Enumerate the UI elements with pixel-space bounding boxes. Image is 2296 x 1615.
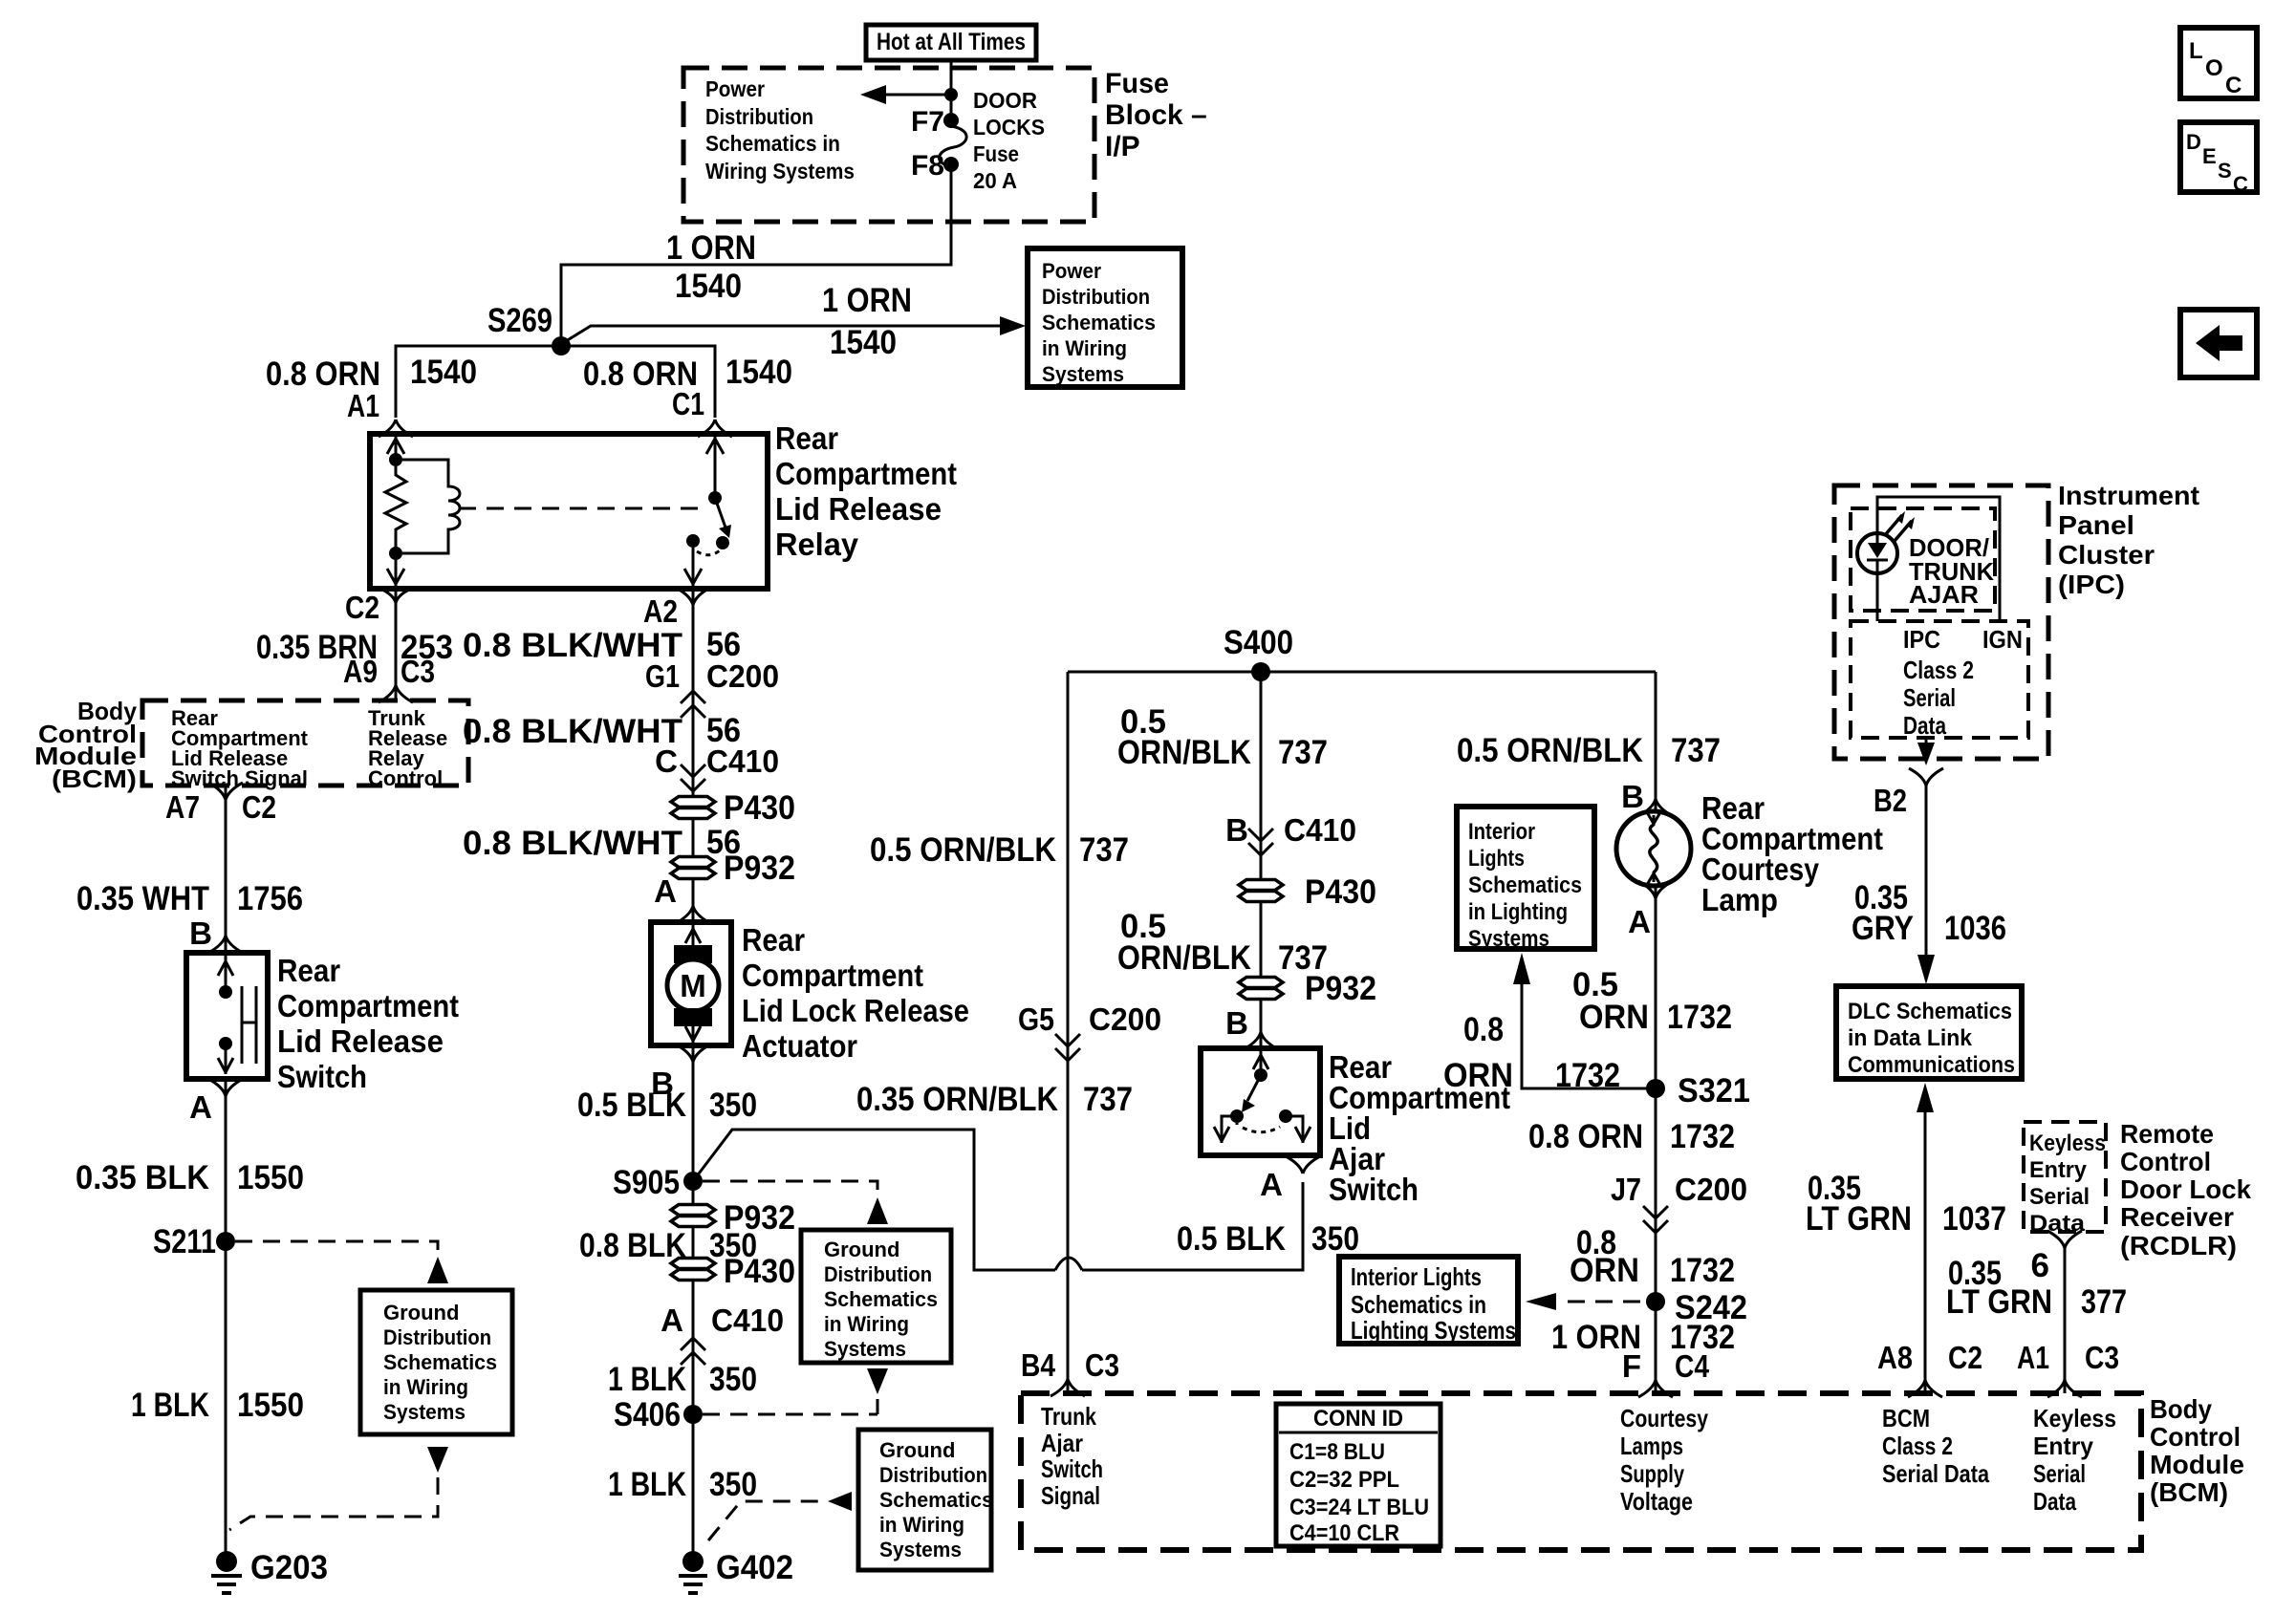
svg-text:0.5 ORN/BLK: 0.5 ORN/BLK <box>870 831 1056 869</box>
connector fork B (ajar switch) <box>1244 1032 1278 1049</box>
labels 0.5 ORN/BLK 737 (center lower) <box>1117 908 1328 977</box>
svg-text:0.8 BLK/WHT: 0.8 BLK/WHT <box>463 713 682 750</box>
svg-text:Serial: Serial <box>2033 1459 2086 1488</box>
svg-text:G5: G5 <box>1018 1001 1054 1037</box>
labels A7 C2 0.35 WHT 1756 B <box>76 789 303 951</box>
svg-text:C2=32 PPL: C2=32 PPL <box>1289 1467 1399 1493</box>
wire S400 down center branch to ajar switch <box>1260 672 1263 1048</box>
svg-text:P430: P430 <box>1305 873 1376 911</box>
svg-text:Power: Power <box>705 76 765 101</box>
svg-text:C410: C410 <box>1284 812 1356 848</box>
labels 0.35 LT GRN 1037 <box>1806 1170 2006 1238</box>
relay coil lower dot and pin C2 <box>387 547 404 586</box>
connector fork A1|C3 <box>2047 1380 2082 1397</box>
door/trunk ajar dashed box <box>1851 508 1995 611</box>
svg-text:Schematics in: Schematics in <box>705 131 840 156</box>
svg-text:P932: P932 <box>724 850 795 887</box>
interior lights schematics box (upper) <box>1457 807 1594 952</box>
BCM upper label <box>34 697 138 793</box>
rear compartment lid release switch box <box>186 953 459 1094</box>
wire BCM A7 to lid release switch B <box>225 786 227 953</box>
svg-text:Ground: Ground <box>383 1301 459 1324</box>
svg-text:A: A <box>189 1089 212 1125</box>
dashed wire G402 to ground distribution box <box>708 1492 852 1540</box>
labels 0.5 ORN/BLK 737 (center) <box>1117 703 1328 771</box>
labels A2 0.8 BLK/WHT 56 G1 C200 <box>463 593 779 694</box>
wire S269 branch arrow to power distribution box <box>566 316 1026 341</box>
labels 1 ORN 1732 F C4 <box>1551 1319 1735 1384</box>
svg-text:Receiver: Receiver <box>2120 1202 2234 1232</box>
wire S905 to lid ajar switch A (0.5 BLK 350) <box>693 1130 1303 1270</box>
svg-text:in Wiring: in Wiring <box>879 1513 964 1537</box>
svg-text:0.35 ORN/BLK: 0.35 ORN/BLK <box>856 1081 1058 1118</box>
svg-text:Courtesy: Courtesy <box>1620 1404 1708 1432</box>
svg-text:Lighting Systems: Lighting Systems <box>1351 1316 1516 1345</box>
wire lamp A to BCM F <box>1655 886 1657 1393</box>
svg-text:C: C <box>655 743 678 779</box>
svg-text:F: F <box>1622 1348 1641 1384</box>
svg-text:A: A <box>661 1303 683 1338</box>
svg-text:AJAR: AJAR <box>1909 580 1979 609</box>
svg-text:A7: A7 <box>165 789 200 825</box>
svg-text:ORN: ORN <box>1570 1252 1639 1289</box>
keyless entry serial data dashed box <box>2024 1122 2106 1237</box>
svg-text:Switch: Switch <box>277 1059 367 1094</box>
svg-text:1540: 1540 <box>675 268 742 305</box>
svg-text:Lid Release: Lid Release <box>277 1023 444 1059</box>
connector C410 double chevron (down) <box>1248 829 1273 855</box>
labels 0.8 BLK/WHT 56 C C410 <box>463 712 779 779</box>
svg-text:P430: P430 <box>724 789 795 827</box>
ground distribution schematics box (lower) <box>858 1430 993 1570</box>
svg-text:Signal: Signal <box>1041 1481 1100 1510</box>
svg-text:0.35 WHT: 0.35 WHT <box>76 880 209 917</box>
svg-text:E: E <box>2202 144 2217 168</box>
svg-text:Hot at All Times: Hot at All Times <box>877 29 1026 55</box>
switch internals <box>218 956 256 1074</box>
svg-text:(BCM): (BCM) <box>2150 1477 2228 1507</box>
svg-text:B: B <box>1621 779 1644 814</box>
svg-text:Actuator: Actuator <box>742 1028 857 1064</box>
connector fork C1 <box>698 420 732 437</box>
svg-text:B4: B4 <box>1021 1347 1056 1383</box>
svg-text:Systems: Systems <box>383 1400 466 1424</box>
labels A C410 <box>661 1303 784 1338</box>
svg-text:C3=24 LT BLU: C3=24 LT BLU <box>1289 1495 1429 1520</box>
svg-text:LT GRN: LT GRN <box>1806 1200 1912 1238</box>
svg-text:20 A: 20 A <box>973 168 1017 193</box>
labels 0.8 ORN 1732 (to interior lights) <box>1443 1011 1620 1094</box>
dashed wire S211 to ground distribution box <box>235 1241 448 1283</box>
svg-text:Relay: Relay <box>775 527 859 562</box>
wire S400 down left branch (trunk ajar switch signal) <box>1067 672 1070 1393</box>
svg-text:in Data Link: in Data Link <box>1848 1025 1973 1051</box>
rear compartment lid release relay box <box>370 420 957 589</box>
connector C200 double chevron <box>681 691 705 718</box>
svg-text:Door Lock: Door Lock <box>2120 1174 2251 1204</box>
svg-text:Communications: Communications <box>1848 1052 2015 1078</box>
connector fork B4|C3 <box>1051 1379 1085 1396</box>
relay coil <box>402 460 460 553</box>
svg-text:C3: C3 <box>401 654 435 689</box>
svg-text:Systems: Systems <box>824 1337 906 1361</box>
svg-text:0.5 ORN/BLK: 0.5 ORN/BLK <box>1457 732 1643 769</box>
svg-text:in Wiring: in Wiring <box>1042 336 1127 360</box>
svg-text:1 BLK: 1 BLK <box>131 1387 209 1424</box>
svg-text:Switch: Switch <box>1041 1454 1103 1483</box>
svg-text:C4: C4 <box>1675 1348 1710 1384</box>
svg-text:Lamp: Lamp <box>1701 882 1778 917</box>
svg-text:(IPC): (IPC) <box>2058 570 2125 599</box>
labels A 0.5 BLK 350 <box>1177 1167 1359 1258</box>
fuse block label <box>1105 68 1207 162</box>
splice S400 and bus wire <box>1068 624 1656 681</box>
connector fork B (lamp) <box>1638 799 1673 816</box>
wire switch A to G203 <box>225 1079 227 1556</box>
svg-text:Ajar: Ajar <box>1041 1429 1083 1457</box>
CONN ID table <box>1276 1404 1440 1546</box>
svg-text:L: L <box>2189 38 2203 64</box>
splice S406 <box>614 1396 703 1433</box>
svg-text:DLC Schematics: DLC Schematics <box>1848 999 2012 1024</box>
svg-text:LT GRN: LT GRN <box>1946 1283 2052 1321</box>
svg-text:Systems: Systems <box>1468 926 1549 952</box>
connector fork below keyless box <box>2047 1231 2082 1248</box>
connector C200 double chevron (down right) <box>1643 1206 1668 1233</box>
labels 0.5 ORN 1732 <box>1572 966 1732 1036</box>
svg-text:B: B <box>189 915 212 951</box>
svg-text:0.8 BLK: 0.8 BLK <box>579 1227 686 1264</box>
wire S269 to A1 and C1 <box>396 346 715 418</box>
svg-text:0.35 BLK: 0.35 BLK <box>76 1159 209 1196</box>
svg-text:0.5 BLK: 0.5 BLK <box>1177 1220 1286 1258</box>
svg-text:1540: 1540 <box>410 354 477 391</box>
svg-text:Trunk: Trunk <box>1041 1402 1096 1431</box>
svg-text:737: 737 <box>1079 831 1129 869</box>
connector fork A8|C2 <box>1908 1380 1942 1397</box>
labels 0.5 ORN/BLK 737 B (lamp) <box>1457 732 1721 814</box>
connector C200 double chevron (down) <box>1055 1034 1080 1061</box>
svg-text:S406: S406 <box>614 1396 681 1433</box>
actuator motor symbol <box>667 925 719 1043</box>
connector fork A (lamp) <box>1638 881 1673 898</box>
labels 0.8 BLK/WHT 56 <box>463 824 741 862</box>
svg-text:Schematics: Schematics <box>824 1287 938 1311</box>
svg-text:Ground: Ground <box>879 1438 955 1462</box>
svg-text:Ground: Ground <box>824 1238 899 1261</box>
body control module (BCM) dashed box <box>1021 1393 2141 1550</box>
svg-text:C2: C2 <box>345 590 379 625</box>
label 1 ORN 1540 (fuse to S269) <box>666 229 756 305</box>
wire keyless to BCM A1 (0.35 LT GRN 377) <box>2064 1248 2067 1393</box>
labels B 0.5 BLK 350 <box>577 1066 757 1124</box>
svg-text:Rear: Rear <box>742 922 805 958</box>
power distribution schematics reference box <box>1028 248 1182 387</box>
fuse block dashed box <box>683 68 1094 222</box>
svg-text:I/P: I/P <box>1105 131 1140 162</box>
svg-text:C: C <box>2225 73 2242 98</box>
svg-text:A8: A8 <box>1877 1340 1913 1375</box>
svg-text:1540: 1540 <box>830 324 897 361</box>
svg-text:ORN: ORN <box>1443 1057 1513 1094</box>
svg-text:M: M <box>680 968 706 1003</box>
svg-text:Control: Control <box>2120 1147 2211 1176</box>
svg-text:B: B <box>1225 812 1248 848</box>
ajar switch internals <box>1214 1051 1310 1143</box>
svg-text:1 BLK: 1 BLK <box>608 1466 686 1503</box>
svg-text:1550: 1550 <box>237 1387 304 1424</box>
svg-text:Control: Control <box>368 766 443 790</box>
labels B4 C3 <box>1021 1347 1119 1383</box>
svg-text:C200: C200 <box>1089 1001 1161 1037</box>
wire B2 to DLC box (0.35 GRY 1036) <box>1917 786 1935 984</box>
connector fork A (switch) <box>208 1079 243 1096</box>
interior lights schematics box (lower) <box>1339 1257 1518 1345</box>
svg-text:S400: S400 <box>1224 624 1293 661</box>
labels 0.8 BLK 350 <box>579 1227 757 1264</box>
svg-text:IGN: IGN <box>1982 625 2023 654</box>
svg-text:J7: J7 <box>1611 1172 1641 1207</box>
dashed wire ground box to G203 wire <box>229 1447 448 1530</box>
svg-text:G1: G1 <box>645 658 680 694</box>
labels A 0.35 BLK 1550 <box>76 1089 304 1196</box>
svg-text:Schematics: Schematics <box>1042 311 1156 334</box>
svg-text:Interior Lights: Interior Lights <box>1351 1262 1482 1291</box>
svg-text:B2: B2 <box>1874 783 1907 818</box>
svg-text:Compartment: Compartment <box>277 988 459 1023</box>
svg-text:Fuse: Fuse <box>1105 68 1169 99</box>
splice S211 <box>153 1223 235 1260</box>
svg-text:S211: S211 <box>153 1223 216 1260</box>
labels C2 0.35 BRN 253 A9 C3 <box>256 590 453 689</box>
svg-text:P430: P430 <box>724 1253 795 1290</box>
svg-text:Switch: Switch <box>1329 1172 1419 1207</box>
wire actuator B to G402 <box>692 1045 695 1556</box>
svg-text:C: C <box>2233 172 2248 196</box>
connector fork A1 <box>379 420 413 437</box>
connector fork A7|C2 <box>208 783 243 800</box>
connector C410 double chevron (up) <box>681 1338 705 1365</box>
svg-text:S321: S321 <box>1678 1072 1750 1109</box>
inline connector P430 (center) <box>1239 873 1376 911</box>
body control module (BCM) upper dashed box <box>142 700 468 790</box>
svg-text:0.8 ORN: 0.8 ORN <box>1528 1118 1643 1155</box>
labels J7 C200 <box>1611 1172 1747 1207</box>
svg-text:S269: S269 <box>487 302 552 339</box>
LOC box <box>2180 28 2257 98</box>
connector fork B (switch) <box>208 936 243 953</box>
svg-text:C3: C3 <box>1085 1347 1119 1383</box>
splice S321 <box>1646 1072 1750 1109</box>
relay switch output pin A2 <box>684 548 702 586</box>
svg-text:Lights: Lights <box>1468 846 1525 872</box>
labels B C410 <box>1225 812 1356 848</box>
ground distribution schematics box (left) <box>360 1290 512 1434</box>
splice S269 <box>487 302 571 355</box>
svg-text:CONN ID: CONN ID <box>1313 1406 1403 1432</box>
svg-text:1732: 1732 <box>1670 1252 1735 1289</box>
svg-text:Data: Data <box>2033 1487 2076 1516</box>
svg-text:ORN: ORN <box>1579 999 1649 1036</box>
inline connector P932 (center) <box>1239 970 1376 1007</box>
svg-text:1036: 1036 <box>1944 910 2006 947</box>
connector fork A2 <box>676 588 710 605</box>
svg-text:LOCKS: LOCKS <box>973 115 1045 140</box>
svg-text:C410: C410 <box>706 743 779 779</box>
svg-text:Module: Module <box>2150 1450 2244 1479</box>
svg-text:1 ORN: 1 ORN <box>822 282 912 319</box>
svg-text:A2: A2 <box>643 593 678 629</box>
svg-text:A: A <box>654 873 677 909</box>
labels 1 BLK 350 <box>608 1466 757 1503</box>
svg-text:Instrument: Instrument <box>2058 481 2199 510</box>
svg-text:Distribution: Distribution <box>879 1463 987 1487</box>
svg-text:C1=8 BLU: C1=8 BLU <box>1289 1439 1385 1465</box>
svg-text:Schematics: Schematics <box>383 1350 497 1374</box>
svg-text:Cluster: Cluster <box>2058 540 2155 570</box>
relay coil pin A1 internals <box>387 437 404 466</box>
instrument panel cluster (IPC) dashed box <box>1834 481 2199 759</box>
inline connector P932 <box>671 850 795 887</box>
svg-text:1037: 1037 <box>1942 1200 2006 1238</box>
relay switch arm <box>715 498 731 538</box>
svg-text:350: 350 <box>709 1087 757 1124</box>
svg-text:Panel: Panel <box>2058 510 2134 540</box>
svg-text:A: A <box>1260 1167 1283 1202</box>
connector fork A9|C3 <box>379 685 413 702</box>
svg-text:1732: 1732 <box>1555 1057 1620 1094</box>
svg-text:Keyless: Keyless <box>2029 1130 2106 1156</box>
relay switch pin C1 internals <box>706 437 724 505</box>
svg-text:A1: A1 <box>347 388 379 423</box>
svg-text:Interior: Interior <box>1468 819 1535 845</box>
labels 1 BLK 350 <box>608 1361 757 1398</box>
label 0.8 ORN 1540 C1 <box>583 354 792 421</box>
wire fuse output to S269 <box>561 170 951 337</box>
svg-text:C2: C2 <box>242 789 276 825</box>
svg-text:Remote: Remote <box>2120 1119 2214 1149</box>
svg-text:G402: G402 <box>716 1549 793 1586</box>
svg-text:Supply: Supply <box>1620 1459 1684 1488</box>
svg-text:1550: 1550 <box>237 1159 304 1196</box>
dashed wire S905 to ground distribution box <box>703 1181 888 1224</box>
inline connector P430 (lower) <box>671 1253 795 1290</box>
svg-text:Block –: Block – <box>1105 99 1207 131</box>
svg-text:Serial: Serial <box>2029 1184 2090 1210</box>
svg-text:350: 350 <box>709 1466 757 1503</box>
wire relay C2 to BCM <box>395 589 398 701</box>
connector fork C2 <box>382 590 409 612</box>
label 1 ORN 1540 (branch) <box>822 282 912 361</box>
svg-text:Lid Release: Lid Release <box>775 491 942 527</box>
svg-text:Lamps: Lamps <box>1620 1432 1683 1460</box>
svg-text:Wiring Systems: Wiring Systems <box>705 159 855 183</box>
svg-text:Class 2: Class 2 <box>1903 656 1974 684</box>
connector fork B (actuator) <box>676 1044 710 1062</box>
wires LED to IPC logic box <box>1877 497 2000 621</box>
rear compartment courtesy lamp <box>1616 790 1883 917</box>
svg-text:Fuse: Fuse <box>973 141 1019 166</box>
back-arrow box <box>2180 310 2257 377</box>
telltale LED indicator <box>1857 511 1915 573</box>
svg-text:Systems: Systems <box>1042 362 1124 386</box>
svg-text:1 BLK: 1 BLK <box>608 1361 686 1398</box>
connector C410 double chevron <box>681 764 705 791</box>
svg-text:D: D <box>2186 130 2201 154</box>
svg-text:in Wiring: in Wiring <box>824 1312 909 1336</box>
svg-text:C2: C2 <box>1948 1340 1982 1375</box>
svg-text:1732: 1732 <box>1667 999 1732 1036</box>
svg-text:0.8 BLK/WHT: 0.8 BLK/WHT <box>463 825 682 862</box>
labels 0.35 GRY 1036 <box>1852 879 2006 947</box>
label 0.8 ORN 1540 A1 <box>266 354 477 423</box>
svg-text:S: S <box>2218 159 2232 183</box>
svg-text:A1: A1 <box>2017 1340 2049 1375</box>
svg-text:in Wiring: in Wiring <box>383 1375 468 1399</box>
svg-text:A9: A9 <box>343 654 378 689</box>
dashed wire S406 to ground distribution box <box>703 1368 888 1414</box>
svg-text:Distribution: Distribution <box>705 104 813 129</box>
svg-text:O: O <box>2205 55 2223 81</box>
svg-text:0.8: 0.8 <box>1463 1011 1504 1048</box>
svg-text:6: 6 <box>2031 1247 2049 1284</box>
wire S321 up to interior lights box <box>1513 953 1656 1088</box>
svg-text:IPC: IPC <box>1903 625 1940 654</box>
svg-text:Systems: Systems <box>879 1538 962 1561</box>
svg-text:Body: Body <box>2150 1394 2212 1424</box>
svg-text:Lid Lock Release: Lid Lock Release <box>742 993 969 1028</box>
svg-text:0.5 BLK: 0.5 BLK <box>577 1087 686 1124</box>
svg-text:Schematics: Schematics <box>1468 872 1582 898</box>
svg-text:Entry: Entry <box>2033 1432 2094 1460</box>
wire from Hot at All Times to fuse <box>950 60 953 115</box>
ground G203 <box>211 1549 328 1593</box>
connector fork B2 <box>1909 768 1943 786</box>
svg-text:737: 737 <box>1278 734 1328 771</box>
svg-text:1540: 1540 <box>726 354 792 391</box>
svg-text:Rear: Rear <box>775 420 838 456</box>
svg-text:P932: P932 <box>1305 970 1376 1007</box>
ground G402 <box>679 1549 793 1593</box>
svg-text:Serial: Serial <box>1903 683 1956 712</box>
svg-text:C3: C3 <box>2085 1340 2119 1375</box>
wire DLC to BCM A8 (0.35 LT GRN 1037) <box>1917 1083 1934 1393</box>
svg-text:(BCM): (BCM) <box>52 764 137 793</box>
svg-text:S905: S905 <box>613 1164 680 1201</box>
svg-text:1 ORN: 1 ORN <box>666 229 756 267</box>
labels 0.5 ORN/BLK 737 (left branch) <box>870 831 1129 869</box>
svg-text:(RCDLR): (RCDLR) <box>2120 1231 2237 1260</box>
svg-text:Schematics: Schematics <box>879 1488 993 1512</box>
svg-text:Distribution: Distribution <box>1042 285 1150 309</box>
svg-text:C410: C410 <box>711 1303 784 1338</box>
DLC schematics box <box>1836 986 2022 1079</box>
svg-text:350: 350 <box>1311 1220 1359 1258</box>
wire relay A2 to actuator A <box>692 589 695 922</box>
svg-text:Compartment: Compartment <box>742 958 923 993</box>
svg-text:Voltage: Voltage <box>1620 1487 1693 1516</box>
svg-text:Distribution: Distribution <box>383 1325 491 1349</box>
svg-text:Class 2: Class 2 <box>1882 1432 1953 1460</box>
svg-text:C4=10 CLR: C4=10 CLR <box>1289 1520 1399 1546</box>
svg-text:C200: C200 <box>706 658 779 694</box>
svg-text:Keyless: Keyless <box>2033 1404 2116 1432</box>
svg-text:Control: Control <box>2150 1422 2241 1452</box>
BCM lower label <box>2150 1394 2244 1507</box>
svg-text:F7: F7 <box>911 106 944 138</box>
svg-text:GRY: GRY <box>1852 910 1914 947</box>
svg-text:Power: Power <box>1042 259 1101 283</box>
